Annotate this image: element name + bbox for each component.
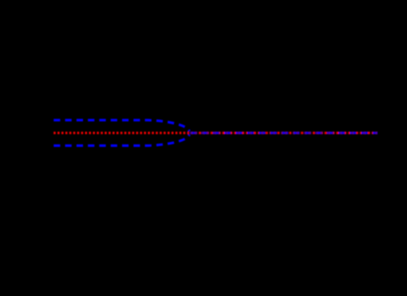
red dotted center line (middle branch)	[54, 132, 378, 134]
red dot overlay blend on merged center line	[190, 132, 377, 134]
blue dashed merged center line right of bifurcation point	[190, 132, 377, 134]
blue dashed upper branch curving down to bifurcation point	[54, 120, 190, 131]
blue dashed lower branch curving up to bifurcation point	[54, 135, 190, 146]
